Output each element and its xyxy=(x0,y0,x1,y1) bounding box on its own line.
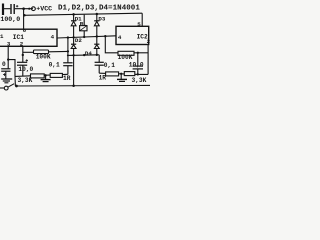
wire IC1 pin6 vertical xyxy=(23,9,25,30)
svg-text:1R: 1R xyxy=(63,75,71,82)
wire xyxy=(15,8,33,10)
wire corner down to IC2 xyxy=(141,13,143,26)
svg-text:RL: RL xyxy=(80,20,87,27)
node dot xyxy=(28,8,30,10)
capacitor C1 100,0 plates xyxy=(10,4,12,14)
plus mark xyxy=(16,5,18,7)
svg-text:1: 1 xyxy=(0,33,4,40)
resistor 100K right box xyxy=(118,51,134,55)
capacitor 10,0 right xyxy=(137,53,139,66)
wire rail corner down right 0,1 xyxy=(98,55,100,63)
wire center ground column xyxy=(73,55,75,86)
svg-text:4: 4 xyxy=(51,34,55,41)
svg-text:10,0: 10,0 xyxy=(129,62,144,69)
svg-text:100,0: 100,0 xyxy=(0,16,20,23)
svg-text:2: 2 xyxy=(147,38,150,45)
node dot xyxy=(22,7,25,10)
switch S1 xyxy=(4,86,8,90)
svg-text:+VCC: +VCC xyxy=(36,5,52,12)
resistor 3,3K right box xyxy=(124,72,135,76)
svg-text:100K: 100K xyxy=(118,54,133,61)
diode D1 xyxy=(73,14,75,20)
svg-text:0,1: 0,1 xyxy=(49,62,60,69)
capacitor elco left edge xyxy=(1,68,10,70)
svg-text:10,0: 10,0 xyxy=(18,66,33,73)
capacitor 10,0 left xyxy=(17,61,27,63)
wire IC2 pin2 column xyxy=(147,45,149,75)
svg-text:100K: 100K xyxy=(36,54,51,61)
plus mark 10,0 xyxy=(26,59,28,61)
text labels xyxy=(0,5,151,84)
svg-text:0: 0 xyxy=(2,61,6,68)
ground left-mid xyxy=(45,75,47,79)
resistor 100K left box xyxy=(34,50,49,54)
svg-text:5: 5 xyxy=(137,21,141,28)
wire left row xyxy=(15,74,68,76)
svg-text:D2: D2 xyxy=(75,37,82,44)
svg-text:3: 3 xyxy=(7,41,11,48)
svg-text:D1,D2,D3,D4=1N4001: D1,D2,D3,D4=1N4001 xyxy=(58,5,140,13)
diode D4 xyxy=(96,37,98,45)
wire right 100K riser xyxy=(105,36,118,53)
ground under elco xyxy=(1,78,12,80)
svg-text:1R: 1R xyxy=(99,75,107,82)
capacitor 0,1 left xyxy=(63,62,72,64)
node dot xyxy=(120,73,122,75)
node dot rail start xyxy=(23,14,26,17)
resistor 1R left box xyxy=(50,73,62,77)
battery plate left edge xyxy=(2,4,4,16)
capacitor 0,1 right xyxy=(95,61,104,63)
wire right lead to edge column xyxy=(134,52,148,54)
wire middle rail pin4 to pin4 xyxy=(57,36,116,38)
node dot xyxy=(44,74,46,76)
wire xyxy=(4,8,10,10)
diode D2 xyxy=(73,37,75,44)
svg-text:4: 4 xyxy=(118,34,122,41)
relay RL coil xyxy=(83,15,85,26)
svg-text:D4: D4 xyxy=(85,50,92,57)
ground right-mid xyxy=(120,74,122,80)
wire branch to row column xyxy=(8,60,15,77)
svg-text:2: 2 xyxy=(20,41,24,48)
svg-text:3,3K: 3,3K xyxy=(132,77,147,84)
node dot xyxy=(72,13,75,16)
wire top rail xyxy=(24,13,143,15)
IC1 box xyxy=(0,29,57,46)
wire row corner column xyxy=(14,76,16,86)
wire 100K left lead xyxy=(23,51,34,53)
resistor 1R right box xyxy=(106,72,119,76)
svg-text:3,3K: 3,3K xyxy=(18,77,33,84)
node dot xyxy=(96,13,99,16)
resistor 3,3K left box xyxy=(31,74,45,78)
wire right row xyxy=(99,73,148,74)
terminal +VCC circle xyxy=(32,7,36,11)
wire bridge bottom rail xyxy=(68,54,99,57)
wire IC1 pin3 column xyxy=(7,46,9,69)
svg-text:0,1: 0,1 xyxy=(104,62,115,69)
IC2 box xyxy=(116,26,149,44)
svg-text:D3: D3 xyxy=(98,16,105,23)
wire IC1 pin2 column xyxy=(22,46,24,62)
wire bottom rail xyxy=(15,84,150,87)
wire 100K right lead xyxy=(49,50,68,52)
diode D3 xyxy=(96,14,98,21)
wire left 0,1 column xyxy=(67,38,69,63)
